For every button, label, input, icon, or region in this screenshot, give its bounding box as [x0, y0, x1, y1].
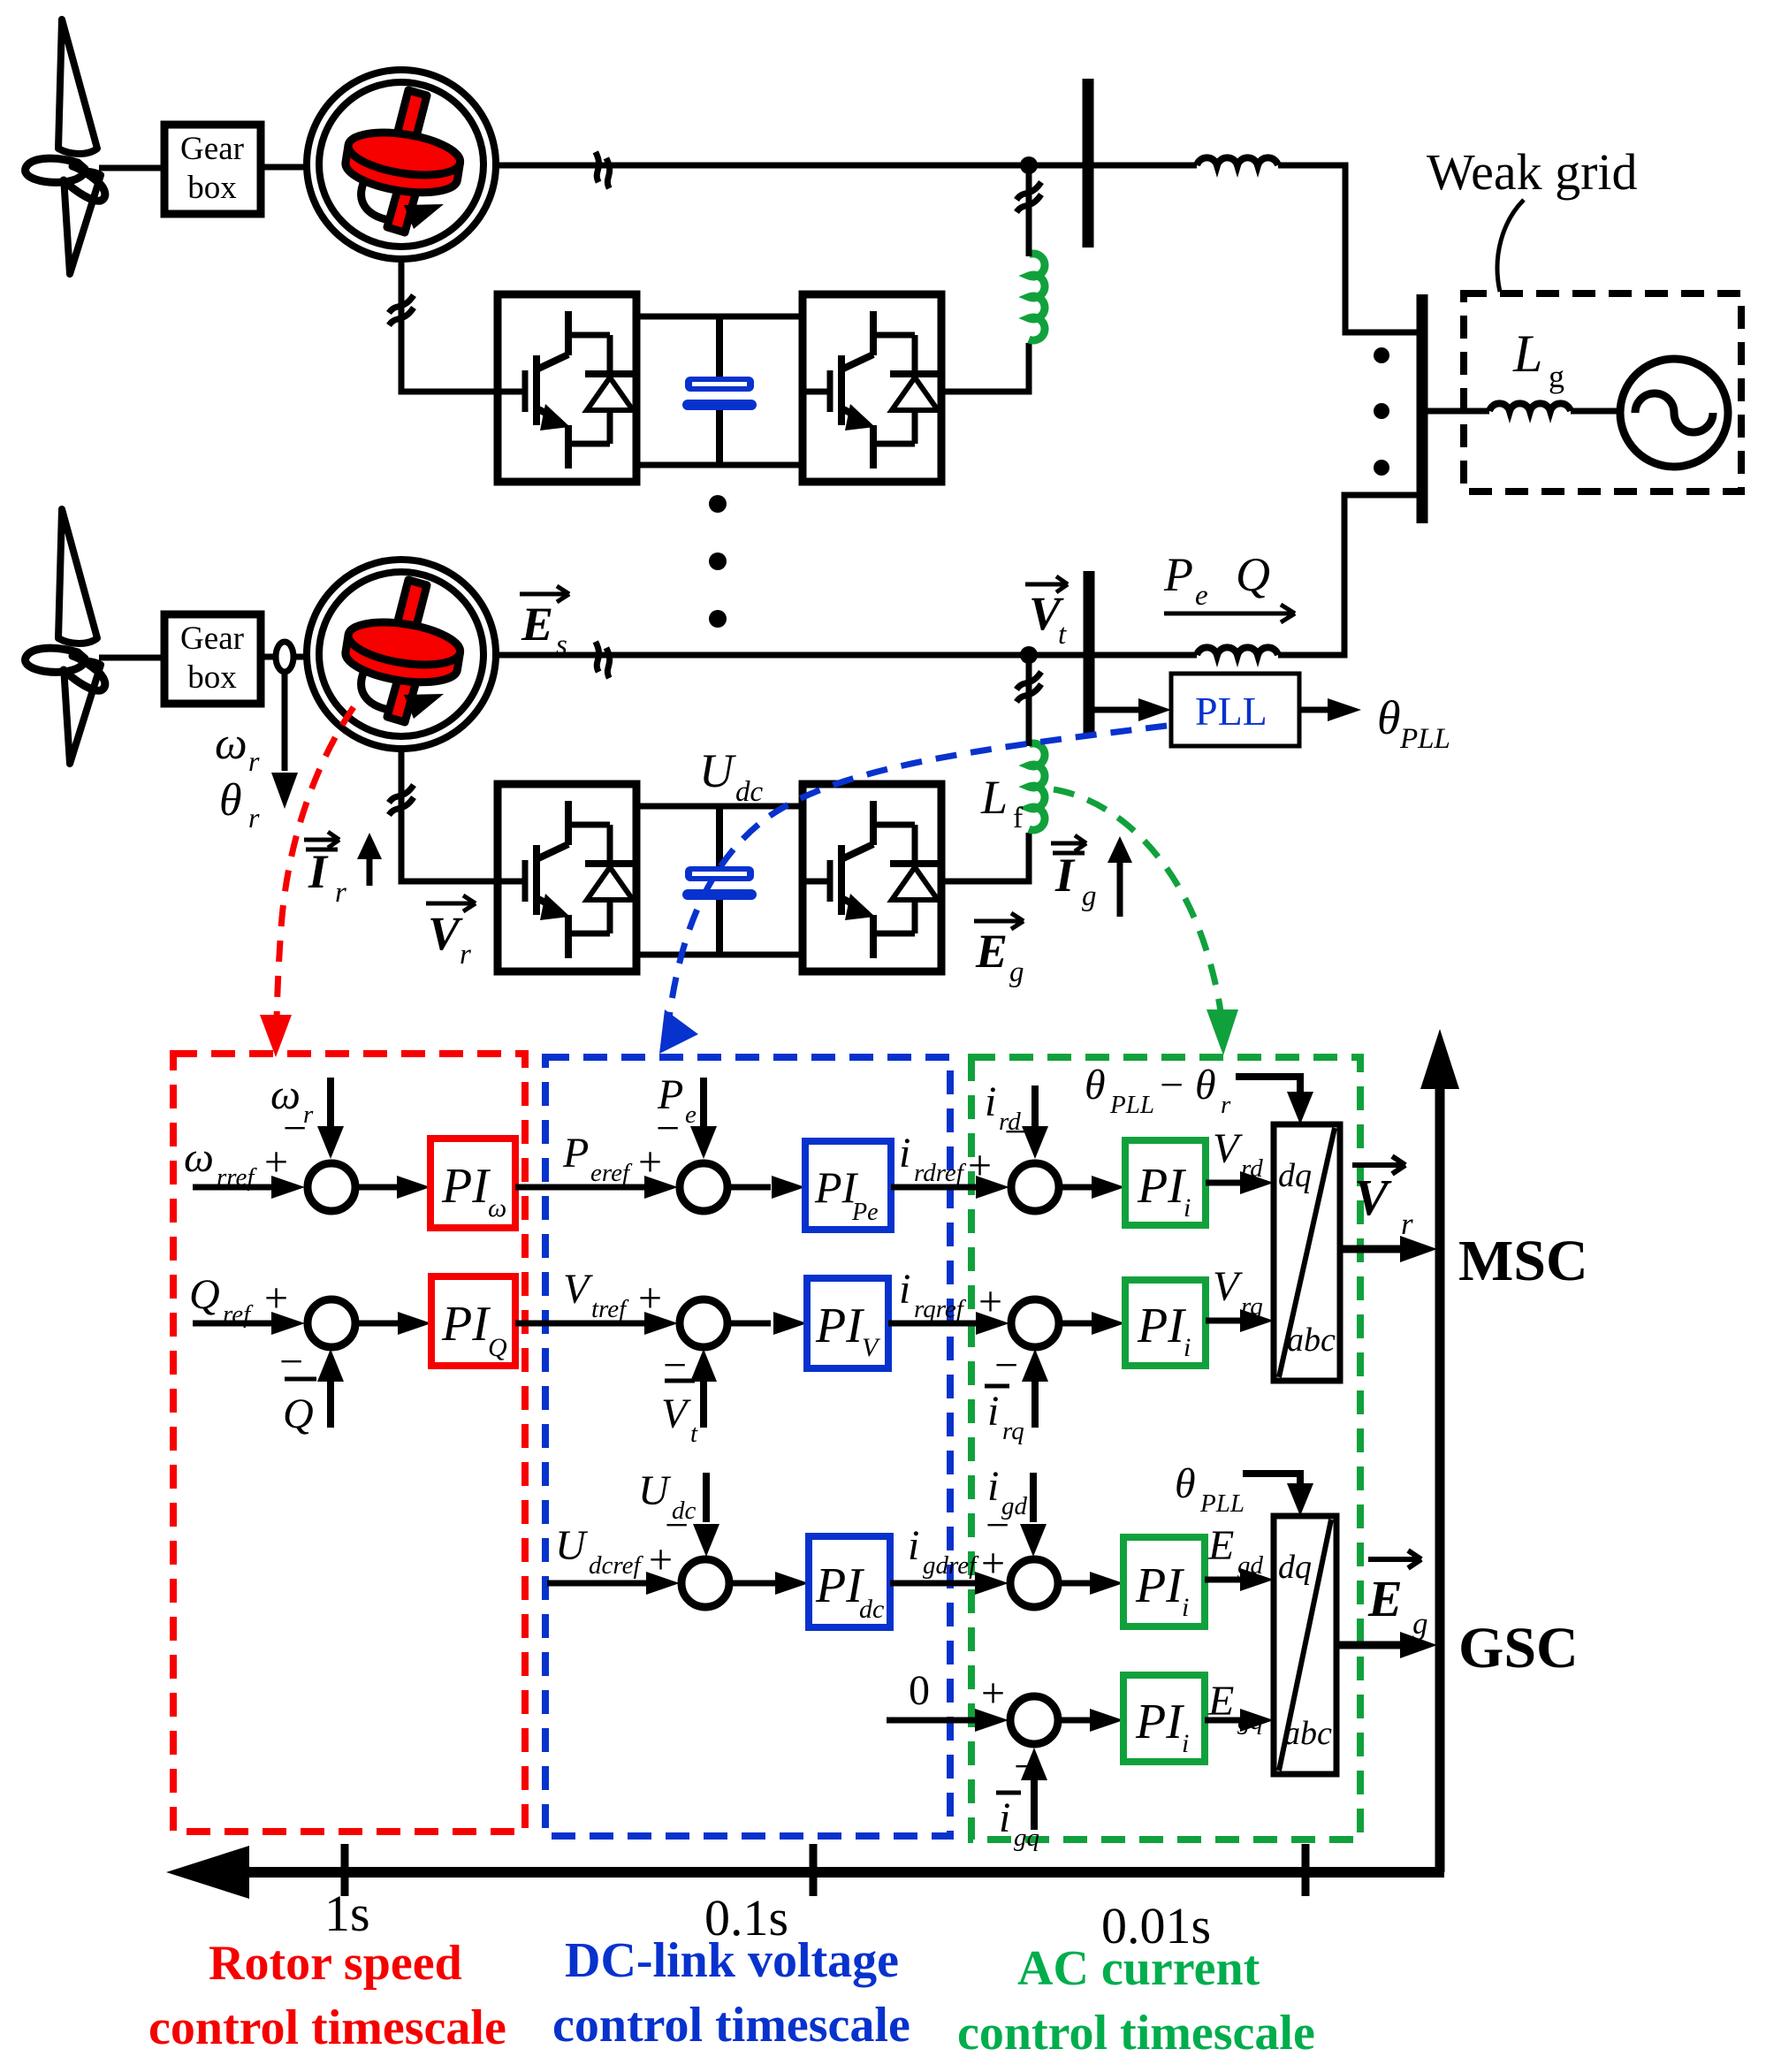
wire bus B1 to line inductor 1: [1088, 163, 1197, 169]
wire break on stator wire 2: [583, 642, 621, 678]
svg-text:U: U: [555, 1522, 589, 1569]
wire Lf1 to node A1: [1026, 165, 1032, 256]
svg-text:control timescale: control timescale: [957, 2006, 1315, 2061]
PLL output arrow: [1299, 707, 1328, 713]
arrow S7 to PIdc: [731, 1581, 777, 1587]
svg-text:f: f: [1013, 802, 1024, 834]
svg-text:dc: dc: [859, 1595, 884, 1624]
converter MSC2 (IGBT cell): [498, 784, 636, 971]
svg-text:PLL: PLL: [1199, 1489, 1245, 1518]
PI_dc block (blue): [809, 1536, 890, 1627]
dots between unit rows: [709, 495, 727, 513]
svg-text:GSC: GSC: [1458, 1616, 1579, 1680]
label Ig vector with up arrow: [1051, 835, 1132, 917]
PI_i block 1 (green): [1125, 1140, 1206, 1225]
line inductor L1 (feeder 1): [1197, 157, 1278, 165]
svg-text:L: L: [1512, 324, 1542, 383]
down arrow ird: [1031, 1086, 1039, 1127]
svg-text:+: +: [968, 1142, 992, 1189]
svg-text:Q: Q: [283, 1390, 314, 1437]
svg-text:PI: PI: [815, 1558, 864, 1613]
svg-text:e: e: [685, 1101, 697, 1129]
PI_Q block (red): [431, 1276, 515, 1366]
bus bar B2 (terminal bus): [1084, 571, 1095, 736]
arrow S8 to PIi3: [1060, 1581, 1092, 1587]
angle input wire into dq1: [1236, 1077, 1300, 1093]
dc link and capacitor C2: [636, 806, 803, 955]
svg-text:g: g: [1009, 956, 1024, 988]
svg-text:E: E: [1367, 1570, 1403, 1627]
label Pe Q with arrow: [1163, 548, 1295, 622]
svg-text:θ: θ: [1175, 1460, 1196, 1507]
wire G1 stator to node A1: [496, 163, 1090, 169]
label irqbar (feedback): [985, 1386, 1024, 1445]
svg-text:U: U: [699, 744, 736, 797]
down arrow igd: [1030, 1473, 1037, 1522]
vertical output line with up arrow: [1435, 1084, 1445, 1872]
wire bus to Lg: [1422, 408, 1489, 415]
PI_V block (blue): [807, 1278, 888, 1368]
blue dashed box (dc-link voltage control): [545, 1057, 950, 1836]
svg-text:MSC: MSC: [1458, 1229, 1588, 1293]
wire PIw to S2: [515, 1185, 658, 1191]
arrow S9 to PIi4: [1060, 1718, 1092, 1724]
wire GSC2 output to filter: [941, 833, 1029, 881]
weak grid dashed box: [1464, 293, 1741, 491]
shaft sensor node (speed/angle pickup): [276, 642, 293, 672]
svg-text:Q: Q: [1236, 548, 1270, 601]
svg-text:Rotor speed: Rotor speed: [209, 1936, 462, 1991]
arrow S4 to PIQ: [357, 1321, 399, 1327]
svg-text:ω: ω: [184, 1134, 214, 1181]
wire Lg to source: [1571, 408, 1621, 415]
angle input wire into dq2: [1243, 1474, 1300, 1483]
svg-text:eref: eref: [590, 1159, 633, 1187]
svg-text:V: V: [428, 907, 463, 960]
svg-text:−: −: [283, 1105, 307, 1152]
label Eg vector (converter output): [974, 913, 1024, 988]
svg-text:V: V: [1213, 1263, 1243, 1310]
svg-text:V: V: [661, 1390, 691, 1437]
PI_i block 2 (green): [1125, 1280, 1206, 1366]
arrow PIi3 to dq2 block: [1205, 1577, 1242, 1583]
svg-text:E: E: [521, 598, 553, 651]
svg-text:rqref: rqref: [914, 1295, 967, 1323]
wind turbine WT1: [26, 19, 105, 274]
svg-text:E: E: [975, 925, 1008, 978]
arrow S5 to PIV: [729, 1321, 771, 1327]
svg-text:i: i: [899, 1130, 910, 1177]
wire feeder 2 to grid bus: [1278, 495, 1420, 655]
svg-text:P: P: [562, 1130, 589, 1177]
label Vt vector: [1025, 576, 1068, 651]
svg-text:i: i: [985, 1078, 996, 1125]
down arrow Udc: [703, 1473, 710, 1522]
svg-text:PI: PI: [441, 1159, 491, 1214]
filter inductor Lf2 (green): [1029, 743, 1045, 830]
svg-text:−: −: [994, 1342, 1018, 1389]
svg-text:L: L: [980, 771, 1008, 824]
svg-text:Q: Q: [189, 1271, 220, 1318]
svg-text:dcref: dcref: [589, 1551, 643, 1580]
PI_Pe block (blue): [805, 1141, 891, 1230]
input wire 0: [887, 1718, 994, 1724]
svg-text:I: I: [308, 845, 329, 898]
PLL input arrow: [1089, 707, 1144, 713]
label Vr vector (rotor voltage): [426, 895, 476, 971]
svg-text:g: g: [1412, 1606, 1428, 1641]
svg-text:abc: abc: [1287, 1322, 1336, 1359]
wire break on rotor wire 2: [389, 785, 414, 815]
svg-text:i: i: [1184, 1333, 1191, 1362]
svg-text:dq: dq: [1278, 1157, 1312, 1194]
svg-text:Q: Q: [488, 1333, 507, 1362]
gear box (unit 2): [164, 614, 261, 704]
svg-text:+: +: [978, 1278, 1002, 1325]
dq/abc transform block (GSC): [1274, 1516, 1336, 1774]
down arrow Pe: [700, 1078, 707, 1127]
svg-text:0: 0: [909, 1667, 930, 1714]
svg-text:PI: PI: [441, 1297, 491, 1352]
tick 0.1s: [810, 1844, 818, 1896]
svg-text:PLL: PLL: [1109, 1091, 1154, 1119]
summing junction S3: [1011, 1163, 1059, 1211]
svg-text:V: V: [1213, 1125, 1243, 1172]
green dashed box (ac current control): [971, 1057, 1360, 1840]
svg-text:dq: dq: [1278, 1549, 1312, 1586]
svg-text:r: r: [460, 939, 471, 971]
arrow S6 to PIi2: [1061, 1321, 1093, 1327]
svg-text:i: i: [908, 1522, 919, 1569]
dq/abc transform block (MSC): [1274, 1124, 1340, 1381]
wire gearbox to generator G2: [261, 654, 307, 660]
svg-text:AC current: AC current: [1017, 1941, 1260, 1996]
summing junction S9: [1010, 1696, 1058, 1744]
svg-text:PI: PI: [1137, 1159, 1186, 1214]
wire Lf2 to node A2: [1026, 655, 1032, 746]
svg-text:e: e: [1195, 580, 1208, 612]
svg-text:i: i: [1182, 1729, 1189, 1758]
wire GSC1 output to filter: [941, 343, 1029, 392]
svg-text:ω: ω: [488, 1193, 506, 1223]
bus bar B1: [1083, 79, 1094, 248]
output arrow Eg to GSC: [1336, 1642, 1400, 1649]
svg-text:PI: PI: [815, 1299, 864, 1353]
summing junction S4: [308, 1299, 355, 1347]
wire gearbox to generator G1: [261, 164, 307, 171]
svg-text:control timescale: control timescale: [552, 1998, 910, 2053]
input arrow wrref: [193, 1185, 273, 1191]
svg-text:θ: θ: [1195, 1062, 1216, 1108]
svg-text:+: +: [638, 1275, 662, 1322]
svg-text:i: i: [1182, 1593, 1189, 1622]
svg-text:PLL: PLL: [1399, 723, 1450, 755]
svg-text:+: +: [981, 1670, 1005, 1717]
svg-text:Pe: Pe: [851, 1199, 879, 1226]
grid inductor Lg: [1489, 403, 1571, 411]
svg-text:r: r: [335, 877, 346, 909]
AC grid source: [1620, 359, 1728, 467]
svg-text:t: t: [690, 1420, 698, 1448]
wind turbine WT2: [26, 509, 105, 764]
svg-text:Weak grid: Weak grid: [1427, 143, 1638, 201]
red dashed curve (rotor speed link): [277, 707, 354, 1030]
svg-text:P: P: [1163, 548, 1193, 601]
converter MSC1 (IGBT cell): [498, 294, 636, 482]
svg-text:ω: ω: [215, 719, 247, 769]
svg-text:dc: dc: [735, 776, 764, 808]
output arrow Vr to MSC: [1340, 1245, 1400, 1253]
converter GSC2 (IGBT cell): [803, 784, 941, 971]
dots at collection bus: [1374, 347, 1389, 363]
svg-text:DC-link voltage: DC-link voltage: [565, 1933, 899, 1988]
svg-text:t: t: [1058, 619, 1067, 651]
green dashed curve (ac current link): [1054, 789, 1222, 1025]
gear box (unit 1): [164, 125, 261, 214]
svg-text:I: I: [1054, 849, 1076, 902]
wire break above Lf2: [1016, 672, 1041, 702]
summing junction S6: [1011, 1299, 1059, 1347]
up arrow irqbar: [1031, 1378, 1039, 1428]
generator G1: [307, 70, 496, 259]
label Es vector: [520, 586, 569, 661]
converter GSC1 (IGBT cell): [803, 294, 941, 482]
up arrow igqbar: [1031, 1777, 1038, 1830]
svg-text:abc: abc: [1283, 1715, 1332, 1752]
arrow S2 to PIPe: [729, 1185, 771, 1191]
svg-text:i: i: [1184, 1193, 1191, 1223]
filter inductor Lf1 (green): [1029, 254, 1045, 340]
arrow PIi4 to dq2 block: [1205, 1718, 1242, 1724]
svg-text:i: i: [987, 1388, 999, 1435]
summing junction S5: [680, 1299, 727, 1347]
wire break on rotor wire 1: [389, 295, 414, 325]
summing junction S7: [681, 1559, 729, 1607]
svg-text:rq: rq: [1002, 1417, 1024, 1445]
svg-text:PLL: PLL: [1195, 689, 1267, 734]
svg-text:i: i: [899, 1266, 910, 1313]
svg-text:E: E: [1207, 1522, 1234, 1569]
arrow S3 to PIi1: [1061, 1185, 1093, 1191]
svg-text:−: −: [1160, 1062, 1184, 1108]
wire PIV to S6: [888, 1321, 988, 1327]
label Vtbar (feedback): [661, 1381, 698, 1448]
down arrow wr: [327, 1078, 334, 1127]
PI_i block 3 (green): [1123, 1537, 1205, 1626]
node A1 junction dot: [1020, 156, 1038, 174]
red dashed box (rotor speed control): [173, 1054, 525, 1832]
svg-text:θ: θ: [1085, 1062, 1106, 1108]
svg-text:r: r: [1401, 1207, 1413, 1241]
up arrow Vtbar: [700, 1378, 707, 1428]
wire PIQ to S5: [515, 1321, 658, 1327]
svg-text:θ: θ: [219, 775, 242, 826]
svg-text:θ: θ: [1377, 691, 1401, 744]
wire shaft WT2 to gearbox: [99, 655, 164, 661]
svg-text:1s: 1s: [324, 1885, 370, 1942]
label Ir vector with up arrow: [304, 832, 382, 909]
axis line: [225, 1867, 1444, 1878]
arrow PIi2 to dq block: [1206, 1318, 1242, 1324]
svg-text:i: i: [999, 1794, 1010, 1841]
wire shaft WT1 to gearbox: [99, 165, 164, 171]
input arrow Qref: [193, 1321, 273, 1327]
label Vr vector output: [1352, 1156, 1413, 1241]
blue dashed curve (dc voltage link): [668, 726, 1167, 1025]
PLL block: [1171, 674, 1299, 746]
wire PIdc to S8: [890, 1581, 994, 1587]
arrow PIi1 to dq block: [1206, 1180, 1242, 1186]
svg-text:V: V: [1354, 1169, 1392, 1226]
svg-text:rdref: rdref: [914, 1159, 967, 1187]
svg-text:V: V: [563, 1266, 593, 1313]
svg-text:g: g: [1082, 880, 1097, 912]
line inductor L2 (feeder 2): [1197, 647, 1278, 655]
generator G2: [307, 560, 496, 749]
wire PIPe to S3: [891, 1185, 988, 1191]
svg-text:−: −: [986, 1502, 1009, 1549]
wire G2 rotor down to MSC2: [401, 749, 498, 881]
wire break above Lf1: [1016, 182, 1041, 212]
PI_i block 4 (green): [1123, 1675, 1205, 1762]
svg-text:PI: PI: [1135, 1695, 1184, 1749]
wire bus B2 to line inductor 2: [1089, 652, 1197, 659]
summing junction S8: [1010, 1559, 1058, 1607]
wire break on stator wire 1: [583, 152, 621, 188]
tick 1s: [341, 1844, 349, 1896]
label Eg vector output: [1367, 1550, 1428, 1641]
arrow S1 to PIw: [357, 1185, 399, 1191]
svg-text:−: −: [656, 1105, 680, 1152]
svg-text:tref: tref: [591, 1295, 629, 1323]
tick 0.01s: [1302, 1844, 1310, 1896]
wire feeder 1 to grid bus: [1278, 165, 1420, 332]
main collection bus bar: [1417, 294, 1428, 523]
label Qbar (feedback): [283, 1379, 316, 1437]
input wire Udcref: [547, 1581, 648, 1587]
dc link and capacitor C1: [636, 316, 803, 465]
leader line from Weak grid label: [1497, 200, 1524, 292]
svg-text:gdref: gdref: [923, 1551, 979, 1580]
node A2 junction dot: [1020, 646, 1038, 664]
wire G1 rotor down to MSC1: [401, 259, 498, 392]
PI_w block (red): [430, 1139, 515, 1228]
wire G2 stator to node A2: [496, 652, 1090, 659]
svg-text:r: r: [1221, 1091, 1231, 1119]
summing junction S2: [680, 1163, 727, 1211]
svg-text:PI: PI: [1135, 1558, 1184, 1613]
svg-text:control timescale: control timescale: [148, 2000, 506, 2055]
svg-text:r: r: [248, 745, 260, 777]
svg-text:g: g: [1549, 359, 1564, 394]
measurement line wr/thetar: [282, 672, 288, 771]
svg-text:r: r: [248, 802, 260, 834]
up arrow Qbar: [327, 1378, 334, 1428]
label igqbar (feedback): [996, 1793, 1039, 1852]
svg-text:PI: PI: [1137, 1299, 1186, 1353]
label thetaPLL - thetar: [1085, 1062, 1231, 1119]
summing junction S1: [308, 1163, 355, 1211]
